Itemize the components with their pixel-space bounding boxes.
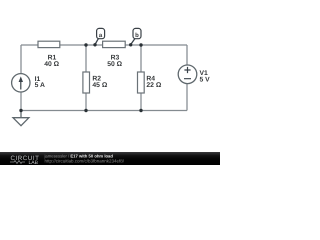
svg-text:http://circuitlab.com/c/b3fbna: http://circuitlab.com/c/b3fbnannk234ef8/ (45, 159, 125, 164)
svg-text:22 Ω: 22 Ω (146, 82, 161, 89)
wire R2 branch (85, 45, 87, 111)
svg-text:b: b (135, 32, 139, 39)
svg-text:5 A: 5 A (35, 82, 45, 89)
junction dot bottom R4 (139, 109, 142, 112)
wire top rail (21, 44, 187, 46)
current source I1 (12, 74, 30, 92)
node a flag (95, 39, 98, 45)
ground (20, 111, 22, 118)
junction dot top R2 (84, 43, 87, 46)
resistor R3 (103, 41, 126, 47)
wire left rail lower (20, 92, 22, 111)
voltage source V1 (178, 65, 197, 84)
junction dot a-tap (93, 43, 96, 46)
resistor R4 (138, 72, 145, 93)
svg-text:50 Ω: 50 Ω (107, 61, 122, 68)
svg-text:40 Ω: 40 Ω (44, 61, 59, 68)
node b flag (131, 39, 135, 45)
wire right rail upper (186, 45, 188, 65)
resistor R2 (83, 72, 90, 93)
wire R4 branch (140, 45, 142, 111)
wire bottom rail (21, 110, 187, 112)
logo zigzag (10, 161, 25, 164)
wire left rail upper (20, 45, 22, 74)
svg-text:5 V: 5 V (200, 77, 211, 84)
wire right rail lower (186, 84, 188, 111)
svg-text:45 Ω: 45 Ω (92, 82, 107, 89)
junction dot bottom R2 (84, 109, 87, 112)
resistor R1 (38, 41, 60, 47)
junction dot top R4 (139, 43, 142, 46)
junction dot b-tap (129, 43, 132, 46)
junction dot ground (19, 109, 22, 112)
svg-text:LAB: LAB (29, 160, 39, 165)
